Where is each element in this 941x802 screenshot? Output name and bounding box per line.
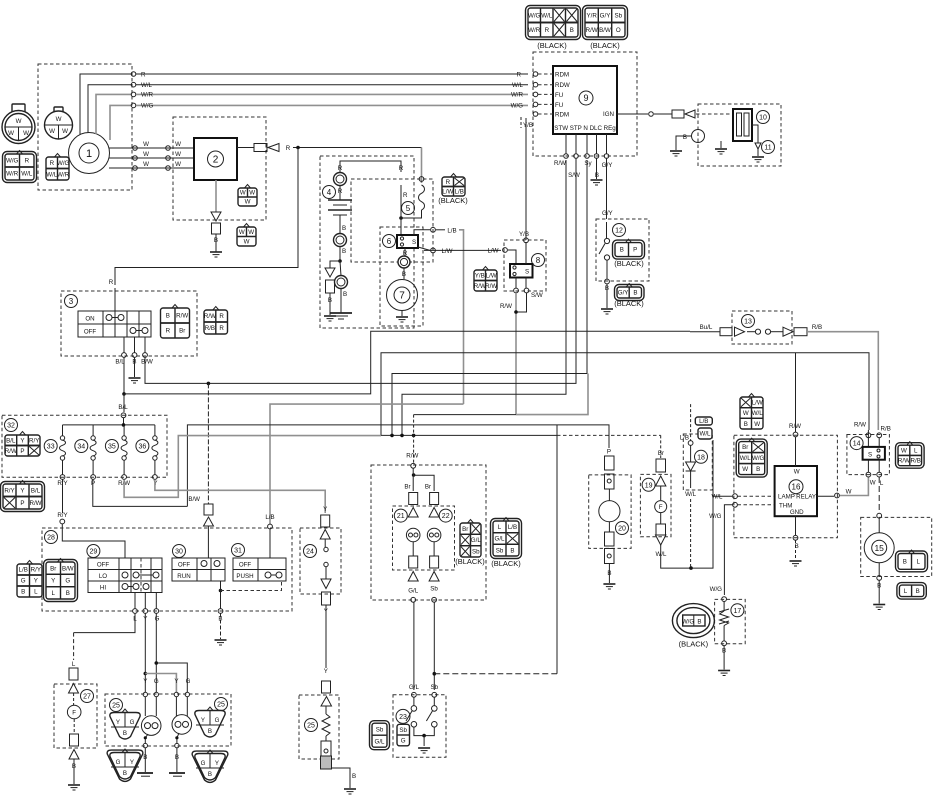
wire W/G to CDI [136,104,528,106]
svg-text:2: 2 [213,155,219,166]
component 5: main fuse [419,185,425,210]
svg-text:P: P [20,448,24,455]
svg-text:L/W: L/W [752,399,763,406]
wire R from ring to relay 6 [400,185,402,235]
battery plates [328,185,352,234]
svg-text:33: 33 [47,444,55,451]
svg-text:Sb: Sb [399,727,407,734]
wire B from CDI to ground [596,159,598,180]
fuse 5 to R node [401,210,422,218]
coil 35 label [105,440,118,453]
wire R below relay 6 to horn [404,248,406,256]
wire B/W fuse into switch 30 [204,504,214,526]
svg-text:B/L: B/L [118,404,128,411]
wire R output of rectifier with bullet connector [237,147,254,149]
svg-text:(BLACK): (BLACK) [614,299,644,308]
svg-text:B: B [570,27,574,34]
svg-text:G: G [186,678,191,685]
wire Br from R/W bus down to flasher relay 19 [660,435,662,458]
connector block 4-pin main switch [161,305,190,339]
relay 8 coil input Y/B [525,242,527,264]
wire Sb branch right [434,673,557,675]
svg-text:32: 32 [7,423,15,430]
svg-text:W/G: W/G [57,160,70,167]
connector block 2-pin headlight [896,550,928,572]
svg-text:R/W: R/W [406,453,418,460]
ground (tail lamp) [68,785,80,790]
svg-text:Br: Br [425,484,431,491]
component 24: brake switch [304,545,317,558]
svg-text:B: B [903,559,907,566]
svg-text:B: B [683,134,687,141]
svg-text:W/R: W/R [57,171,70,178]
component 25 chain: brake resistor [321,681,332,706]
dashed box: ignition coil + spark plug [698,104,781,166]
component 1: AC magneto (circle symbol) [79,143,99,163]
svg-text:G/L: G/L [408,588,419,595]
dashed box: flasher relay 19 [640,474,671,536]
component 6: starter relay box [397,235,418,248]
dashed box: headlamps 25 [105,694,231,746]
svg-text:G/L: G/L [471,537,482,544]
wire R/W horizontal bus [381,434,557,436]
svg-text:B: B [744,421,748,428]
svg-text:G/Y: G/Y [602,210,613,217]
svg-text:W: W [245,199,251,206]
svg-text:G/Y: G/Y [618,290,629,297]
svg-text:R/W: R/W [5,448,17,455]
svg-text:1: 1 [86,148,92,160]
dashed box: handlebar switch assembly 28 [42,528,292,611]
dashed box: diode 18 [683,434,712,490]
component 17: thermo sensor label [731,604,744,617]
svg-text:R/Y: R/Y [29,437,39,444]
wire B from rectifier down with connector to ground [215,180,217,212]
svg-text:HI: HI [100,585,106,592]
svg-text:Sb: Sb [615,12,623,19]
svg-text:B: B [916,588,920,595]
headlamp 25 right label [215,698,228,711]
svg-text:B/L: B/L [31,487,41,494]
svg-text:G/L: G/L [375,738,386,745]
svg-text:W: W [143,141,149,148]
svg-text:3: 3 [69,297,74,306]
wire R/W drop to flasher lamps box [413,415,415,463]
dashed box: fuse 5 / relay 6 [351,179,433,262]
ground (headlight) [873,605,885,610]
ground (thermo sensor) [718,671,730,676]
svg-text:Sb: Sb [472,548,480,555]
svg-text:W/G: W/G [752,455,765,462]
wire IGN (orange) from CDI to ignition coil [617,113,648,115]
svg-text:Y: Y [20,437,24,444]
dashed box: lighting coils 32 [2,415,167,477]
svg-text:W: W [901,447,907,454]
svg-text:W: W [870,480,876,487]
wire R from magneto up [80,74,132,135]
wire W/L to CDI [136,84,528,86]
dashed box: main switch 3 [61,291,197,356]
svg-text:R: R [219,325,224,332]
svg-text:W/G: W/G [682,619,695,626]
CDI output pins bottom [565,134,567,154]
svg-text:W: W [742,466,748,473]
lamp ground B left [145,734,148,743]
wire Y gray to brake switch 24 [155,480,325,514]
svg-text:B: B [510,547,514,554]
component 20: position lamp label [616,522,629,535]
wire R/Y into dimmer switch [62,524,125,558]
svg-text:B: B [166,313,170,320]
svg-text:24: 24 [306,549,314,556]
svg-text:P: P [607,449,611,456]
svg-text:B: B [342,248,346,255]
dashed box: main switch 12 [596,219,649,281]
svg-text:Sy: Sy [584,160,592,167]
ring terminal to frame [340,261,341,276]
ring terminal battery + [334,173,347,186]
connector block 1-pin L/B [695,417,712,425]
svg-text:OFF: OFF [239,562,252,569]
wire R heavy from rectifier down to fuse 5 [421,148,423,184]
svg-text:P: P [633,247,637,254]
svg-text:Sb: Sb [496,547,504,554]
svg-text:OFF: OFF [84,329,97,336]
svg-text:Y: Y [20,487,24,494]
svg-text:LAMP: LAMP [778,494,795,501]
wire R/W bus to item 14 [381,353,869,436]
svg-text:L: L [904,588,908,595]
connector block 2-pin (BLACK) G/Y-B [615,284,645,301]
svg-text:B: B [343,291,347,298]
wire W/L flasher relay to lamp relay [661,440,713,568]
svg-text:Y: Y [174,678,178,685]
svg-text:W: W [248,229,254,236]
svg-text:S/W: S/W [531,292,543,299]
wire Sb drop to turn switch [556,425,558,674]
connector 3-pin triangular (left headlamp) [110,709,140,739]
svg-text:LO: LO [99,573,107,580]
svg-text:B: B [123,730,127,737]
svg-text:RDM: RDM [555,112,569,119]
svg-text:W/L: W/L [740,455,752,462]
ground (switch 12) [601,309,613,314]
svg-text:G/L: G/L [409,684,420,691]
ring terminal battery - [334,234,347,247]
svg-text:RUN: RUN [177,573,190,580]
svg-text:36: 36 [139,444,147,451]
svg-text:5: 5 [406,204,411,213]
connector block 8-pin (BLACK) CDI [526,6,581,40]
svg-text:L/W: L/W [486,272,497,279]
svg-text:W: W [175,161,181,168]
svg-text:Y: Y [116,719,120,726]
component 31: start switch [232,544,245,557]
ground (spark plug) [752,157,764,162]
svg-text:W: W [49,128,55,135]
three W phase wires magneto to rectifier [109,147,194,149]
svg-text:(BLACK): (BLACK) [455,557,485,566]
svg-text:R/W: R/W [474,283,486,290]
svg-text:19: 19 [645,482,653,489]
svg-text:RDW: RDW [555,82,570,89]
dashed box: resistor 25 [299,695,339,759]
component 20: front position lamp chain [605,456,615,489]
coil secondary ground [720,141,722,148]
component 19: flasher relay [642,478,655,491]
dashed box: lamp relay 16 [734,435,838,538]
svg-text:P: P [20,500,24,507]
svg-text:21: 21 [397,513,405,520]
wire B from main switch to ground [134,358,136,378]
svg-text:W/L: W/L [655,551,667,558]
dashed box: CDI unit assembly [533,52,637,156]
svg-text:W: W [143,161,149,168]
svg-text:(BLACK): (BLACK) [679,640,709,649]
switch 3 contacts ON row [106,315,112,321]
coils 33,34,35,36 [62,425,64,436]
svg-text:31: 31 [234,548,242,555]
svg-text:29: 29 [90,549,98,556]
svg-text:L: L [72,661,76,668]
wire B/L to lighting fuse 13 [124,331,690,394]
wire B/L main switch down to coil box 32 [123,358,125,394]
svg-text:(BLACK): (BLACK) [590,41,620,50]
oval connector 2-pin (BLACK) [672,604,714,638]
svg-text:W: W [794,469,800,476]
branch to lamp 22 [413,475,434,491]
dashed box: horn 7 [380,227,423,326]
svg-text:14: 14 [853,441,861,448]
connector 3-pin triangular mate (right) [192,750,228,782]
svg-text:G: G [21,578,26,585]
svg-text:W: W [175,151,181,158]
svg-text:W: W [23,130,29,137]
ground (battery fuse) [324,316,336,321]
connector: round 3-pin (inside magneto box) [45,107,73,139]
connector block 6-pin (BLACK) CDI [583,6,628,40]
svg-text:R: R [141,72,146,79]
connector 3-pin triangular (right headlamp) [195,707,225,737]
svg-text:R/W: R/W [204,313,216,320]
svg-text:FU: FU [555,92,563,99]
svg-text:GND: GND [790,509,804,516]
svg-text:L/W: L/W [442,188,453,195]
svg-text:L/W: L/W [441,248,452,255]
dashed box: tail lamp 27 [54,684,97,748]
connector block 2-pin (BLACK) switch 12 [613,239,645,259]
component 16: lamp relay box [775,466,817,516]
svg-text:B: B [123,770,127,777]
wire W/L from magneto up [88,85,132,133]
svg-text:W/R: W/R [511,92,524,99]
coil 36 label [136,440,149,453]
svg-text:R/W: R/W [176,313,188,320]
svg-text:FU: FU [555,102,563,109]
lamp lead wires [144,697,146,716]
svg-text:13: 13 [744,319,752,326]
svg-text:R: R [25,158,30,165]
svg-text:R/B: R/B [881,426,891,433]
svg-text:(BLACK): (BLACK) [614,259,644,268]
ground (turn switch) [418,748,430,753]
svg-text:B/W: B/W [188,496,200,503]
connector block 3-pin below rectifier [238,185,257,207]
dimmer outputs L Y G [134,593,136,609]
svg-text:W: W [249,190,255,197]
headlamp bulb left [141,716,161,736]
spark plug cap circle and B wire [692,130,705,143]
svg-text:STW STP N DLC REg: STW STP N DLC REg [554,125,616,132]
dashed box: battery assembly 4 [320,156,414,328]
svg-text:34: 34 [77,444,85,451]
svg-text:Y: Y [324,668,328,675]
wire W/R from magneto up [96,94,132,134]
svg-text:W: W [62,128,68,135]
svg-text:W/G: W/G [528,12,541,19]
svg-text:L/B: L/B [19,567,28,574]
svg-text:7: 7 [399,291,405,302]
component 9: CDI unit box [553,66,617,134]
dashed box: brake switch 24 [300,528,341,594]
svg-text:30: 30 [175,549,183,556]
battery ground branch with fuse [330,261,340,268]
svg-text:W: W [143,151,149,158]
svg-text:R/W: R/W [29,500,41,507]
svg-text:W/L: W/L [699,431,711,438]
svg-text:35: 35 [108,444,116,451]
svg-text:L/B: L/B [265,514,274,521]
connector block 6-pin (BLACK) flasher lamps [460,520,481,558]
svg-text:W: W [743,410,749,417]
headlamp bulb right [172,715,192,735]
wire L dimmer to tail lamp 27 [74,614,135,633]
switch 3 contacts OFF row [130,328,136,334]
component 17: thermo sensor [722,597,727,602]
connector block 3-pin (mate) [237,224,256,247]
svg-text:B: B [620,247,624,254]
svg-text:L/B: L/B [508,524,517,531]
svg-text:L: L [498,524,502,531]
svg-text:W: W [56,116,62,123]
svg-text:Br: Br [50,565,56,572]
svg-text:(BLACK): (BLACK) [491,559,521,568]
component 1 body circle [69,133,110,174]
wire W/G to thermo sensor 17 [733,502,738,507]
svg-text:RDM: RDM [555,72,569,79]
main switch table [78,311,151,337]
svg-text:L: L [51,590,55,597]
ground (lamp relay) [790,561,802,566]
wire G branch to right headlamp [156,663,187,692]
svg-text:R: R [517,72,522,79]
component 3: main switch [65,295,78,308]
wires G/L and Sb down to turn switch 23 [413,602,415,690]
svg-text:Y/B: Y/B [523,122,533,129]
svg-text:G: G [215,717,220,724]
svg-text:Br: Br [462,526,468,533]
svg-text:Y: Y [130,759,134,766]
svg-text:R: R [109,279,114,286]
svg-text:W/G: W/G [709,513,722,520]
svg-text:L: L [34,589,38,596]
component 8: starter relay [532,254,545,267]
svg-text:4: 4 [327,188,332,197]
svg-text:G: G [401,738,406,745]
wire W/R to CDI [136,93,528,95]
dashed box: position lamp 20 [589,475,631,549]
svg-text:W/L: W/L [512,82,524,89]
wire Y/B from CDI down to relay 8 [520,117,522,128]
connector block 1-pin W/L [698,428,712,439]
svg-text:W: W [240,190,246,197]
svg-text:L/B: L/B [699,418,708,425]
wire L/B from relay 6 down to start switch [270,404,464,524]
svg-text:B: B [756,466,760,473]
svg-text:Br: Br [179,328,185,335]
wire R/W from relay 8 across [516,374,588,415]
dashed box: rectifier/regulator assembly [173,117,266,220]
svg-text:R/W: R/W [854,422,866,429]
svg-text:Sb: Sb [431,684,439,691]
lamp ground B right [177,733,179,743]
wires Y and G dimmer to headlamps [144,614,146,693]
svg-text:W/R: W/R [141,92,154,99]
wire L/B heavy down [459,230,464,404]
svg-text:Y: Y [51,578,55,585]
svg-text:G: G [130,719,135,726]
connector block 2-pin headlight mate [897,583,926,600]
svg-text:B/W: B/W [62,565,74,572]
svg-text:W: W [16,118,22,125]
component 25: resistor [305,719,318,732]
svg-text:Y: Y [323,506,327,513]
svg-text:Y: Y [215,760,219,767]
wire W relay 16 output to dimmer relay 14 [817,495,834,497]
svg-text:L/W: L/W [487,248,498,255]
svg-text:R/Y: R/Y [31,567,41,574]
wire R to CDI [136,73,528,75]
svg-text:W/G: W/G [141,103,154,110]
headlamp 25 left label [110,699,123,712]
connector block 4-pin (harness side) [3,151,37,183]
component 21: flasher indicator lamp [394,509,407,522]
connector block 4-pin (magneto side) [46,154,70,181]
connector block 4-pin main switch (mate) [204,307,228,335]
svg-text:27: 27 [83,694,91,701]
svg-text:Y: Y [34,578,38,585]
svg-text:B/W: B/W [141,359,153,366]
connector block 6-pin relay 16 [736,438,767,477]
wire L relay 14 to headlight 15 [878,477,880,513]
connector block 6-pin (BLACK) mate [491,518,522,559]
svg-text:W: W [244,238,250,245]
connector block 6-pin (28) [17,561,42,598]
svg-text:W/L: W/L [541,12,553,19]
dashed box: AC magneto assembly [38,64,132,190]
tail lamp bulb [67,705,81,719]
svg-text:W/L: W/L [752,410,764,417]
svg-text:(BLACK): (BLACK) [438,196,468,205]
svg-text:Y: Y [201,717,205,724]
connector block 6-pin above relay 16 [740,394,763,430]
wire G/Y from CDI down to main switch 12 [606,159,608,220]
switch 3 output stubs B/L B B/W [123,337,125,353]
svg-text:W: W [8,130,14,137]
wire R/W from relay 8 down [515,293,517,415]
svg-text:L: L [880,480,884,487]
svg-text:W: W [754,421,760,428]
